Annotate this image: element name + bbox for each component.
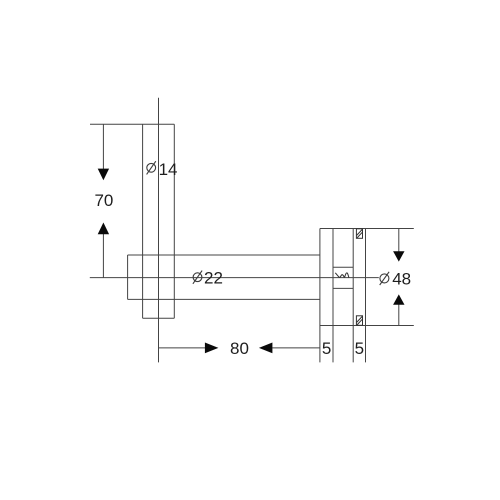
svg-text:5: 5 <box>355 339 364 358</box>
post Ø14 left edge <box>142 124 144 318</box>
dimension Ø48 line upper segment <box>398 229 400 252</box>
glass top edge <box>333 266 353 268</box>
dimension Ø48 down arrow <box>393 251 404 261</box>
label Ø22: diameter symbol <box>193 271 202 284</box>
extension line: top edge of post <box>90 123 174 125</box>
dimension 80 line right segment <box>272 347 320 349</box>
svg-text:14: 14 <box>159 160 178 179</box>
rod Ø22 left end <box>127 255 129 299</box>
post centerline / 80-dim left extension <box>158 98 160 363</box>
svg-text:80: 80 <box>230 339 249 358</box>
horizontal centerline <box>90 277 379 279</box>
gasket bottom (hatched) <box>356 316 362 326</box>
flange plate Ø48 left edge + 5-dim extension <box>319 229 321 363</box>
plates bottom edge + Ø48 bottom extension <box>320 325 414 327</box>
rod Ø22 top edge <box>128 254 320 256</box>
dimension Ø48 up arrow <box>393 294 404 304</box>
dimension 70 line lower segment <box>102 234 104 278</box>
post Ø14 bottom edge <box>143 317 175 319</box>
glass bottom edge <box>333 287 353 289</box>
svg-text:22: 22 <box>204 268 223 287</box>
dimension 80 left arrow <box>259 343 273 354</box>
cover plate left edge + 5-dim extension <box>352 229 354 363</box>
cover plate right edge + 5-dim extension <box>365 229 367 363</box>
svg-text:48: 48 <box>392 269 411 288</box>
rod Ø22 bottom edge <box>128 298 320 300</box>
svg-text:5: 5 <box>322 339 331 358</box>
post Ø14 right edge <box>173 124 175 318</box>
plates top edge + Ø48 top extension <box>320 228 414 230</box>
dimension Ø48 line lower segment <box>398 304 400 325</box>
glass break mark (squiggle) <box>335 273 349 278</box>
gasket top (hatched) <box>356 229 362 239</box>
dimension 70 line upper segment <box>102 124 104 169</box>
svg-text:70: 70 <box>94 191 113 210</box>
dimension 80 line left segment <box>159 347 206 349</box>
flange plate Ø48 right edge + 5-dim extension <box>332 229 334 363</box>
dimension 70 down arrow <box>98 169 109 181</box>
dimension 80 right arrow <box>205 343 219 354</box>
label Ø48: diameter symbol <box>380 272 389 285</box>
dimension 70 up arrow <box>98 223 109 235</box>
label Ø14: diameter symbol <box>147 161 156 174</box>
